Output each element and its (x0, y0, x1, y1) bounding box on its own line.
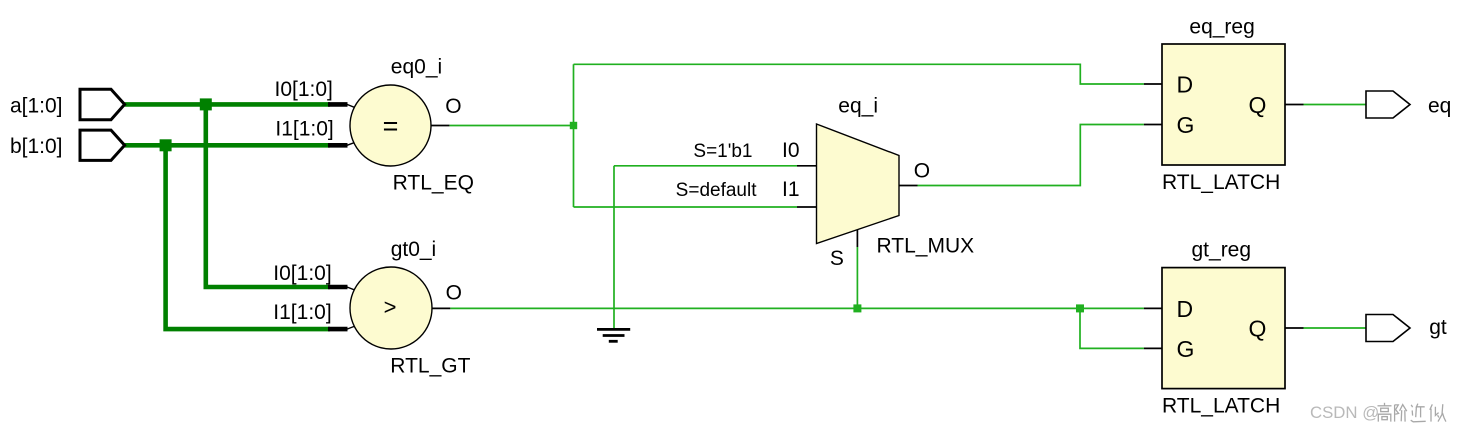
svg-text:eq_i: eq_i (838, 95, 878, 118)
svg-text:RTL_GT: RTL_GT (390, 354, 470, 377)
svg-text:>: > (384, 295, 397, 320)
svg-text:gt_reg: gt_reg (1192, 239, 1252, 262)
svg-text:D: D (1177, 71, 1194, 97)
output port eq (1366, 91, 1410, 118)
svg-text:Q: Q (1249, 315, 1267, 341)
svg-text:RTL_LATCH: RTL_LATCH (1162, 395, 1280, 418)
latch gt_reg body (1162, 268, 1285, 389)
op eq0_i RTL_EQ circle (350, 85, 431, 166)
pin stub gt_reg Q (1285, 327, 1304, 329)
svg-text:=: = (383, 111, 399, 141)
svg-text:eq0_i: eq0_i (391, 56, 442, 79)
input port b[1:0] (80, 130, 125, 160)
bus b[1:0] vertical branch to gt0_i I1 (166, 145, 330, 329)
pin stub gt_reg G (1144, 347, 1162, 349)
svg-text:eq_reg: eq_reg (1189, 16, 1254, 39)
svg-text:gt: gt (1429, 316, 1447, 339)
svg-text:Q: Q (1249, 92, 1267, 118)
wire net eq0_i/O vertical branch at x=573.5 (573, 64, 575, 207)
pin stub gt0_i O (432, 307, 450, 309)
watermark hanzi jie (1395, 405, 1407, 422)
pin stub mux I1 (797, 206, 817, 208)
pin stub gt0_i I0 (black bus end) (328, 285, 348, 290)
bus junction on a net (200, 98, 212, 110)
ground symbol (597, 329, 630, 341)
input port a[1:0] (80, 89, 125, 120)
bus junction on b net (160, 139, 172, 151)
wire gt0_i O long run to gt_reg D (450, 307, 1144, 309)
svg-text:eq: eq (1428, 95, 1451, 118)
pin stub mux O (899, 185, 918, 187)
wire mux O to eq_reg G (918, 125, 1144, 186)
wire eq_reg Q to port eq (1304, 104, 1367, 106)
watermark hanzi gao (1378, 403, 1392, 422)
svg-text:O: O (446, 282, 462, 305)
svg-text:I1: I1 (782, 178, 800, 201)
svg-text:S=1'b1: S=1'b1 (693, 141, 752, 162)
watermark hanzi si (1430, 404, 1446, 421)
mux eq_i RTL_MUX body (817, 124, 900, 244)
wire to mux I1 (574, 206, 798, 208)
wire gt_reg Q to port gt (1304, 327, 1367, 329)
pin stub eq_reg D (1144, 83, 1162, 85)
svg-text:I0: I0 (782, 139, 800, 162)
svg-text:G: G (1177, 336, 1195, 362)
wire to mux I0 from ground net (614, 165, 797, 167)
bus a[1:0] horizontal to eq0_i I0 (125, 102, 330, 107)
svg-text:D: D (1177, 296, 1194, 322)
pin stub eq0_i I1 (black bus end) (328, 143, 348, 148)
net junction mux S on gt net (853, 304, 861, 312)
pin stub eq0_i O (431, 125, 449, 127)
svg-text:G: G (1177, 112, 1195, 138)
pin stub eq_reg G (1144, 124, 1162, 126)
wire mux S net vertical (856, 247, 858, 308)
svg-text:RTL_EQ: RTL_EQ (393, 171, 474, 194)
svg-text:RTL_LATCH: RTL_LATCH (1162, 171, 1280, 194)
pin stub eq0_i I0 (black bus end) (328, 102, 348, 107)
op gt0_i RTL_GT circle (350, 267, 432, 349)
pin stub eq_reg Q (1285, 104, 1304, 106)
svg-text:S: S (830, 247, 844, 270)
svg-text:O: O (445, 95, 461, 118)
svg-text:gt0_i: gt0_i (391, 238, 437, 261)
svg-text:O: O (914, 160, 930, 183)
svg-text:I1[1:0]: I1[1:0] (273, 301, 331, 324)
wire ground net vertical (613, 166, 615, 329)
wire branch to gt_reg G (1080, 308, 1144, 348)
bus b[1:0] horizontal to eq0_i I1 (125, 143, 330, 148)
svg-text:I0[1:0]: I0[1:0] (275, 78, 333, 101)
net junction gt_reg branch (1076, 304, 1084, 312)
svg-text:CSDN @: CSDN @ (1310, 403, 1379, 422)
svg-text:I0[1:0]: I0[1:0] (273, 262, 331, 285)
pin stub gt_reg D (1144, 307, 1162, 309)
latch eq_reg body (1162, 44, 1285, 165)
pin stub mux I0 (797, 165, 817, 167)
net junction at eq0_i O (570, 122, 577, 129)
svg-text:b[1:0]: b[1:0] (10, 135, 63, 158)
svg-text:S=default: S=default (676, 180, 758, 201)
wire net eq0_i/O horizontal (449, 125, 573, 127)
svg-text:a[1:0]: a[1:0] (10, 94, 63, 117)
pin stub gt0_i I1 (black bus end) (328, 327, 348, 332)
wire top run to eq_reg D (574, 64, 1144, 84)
svg-text:RTL_MUX: RTL_MUX (877, 235, 975, 258)
watermark hanzi jin (1411, 404, 1426, 422)
bus a[1:0] vertical branch to gt0_i I0 (206, 104, 330, 287)
svg-text:I1[1:0]: I1[1:0] (275, 118, 333, 141)
pin stub mux S (856, 230, 858, 247)
output port gt (1366, 315, 1410, 342)
